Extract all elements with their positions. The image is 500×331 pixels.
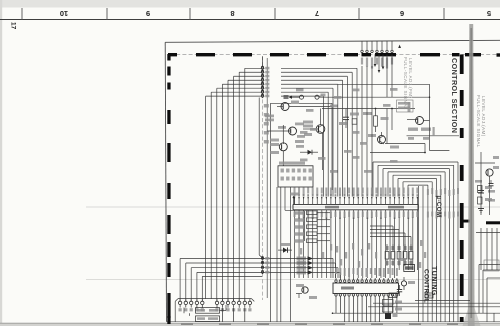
IC U1 pin labels above [294, 188, 419, 197]
component box X4 [425, 293, 433, 298]
transistor Q1 [303, 109, 325, 171]
component box X3 [389, 293, 397, 298]
transistor Q6 [475, 152, 499, 215]
inter-connector wire [259, 98, 261, 258]
resistor R20 [398, 258, 415, 272]
dashed border right edge [460, 55, 464, 323]
label CONTROL SECTION [450, 58, 459, 133]
bottom scan edge strip [0, 323, 500, 326]
bus wires fan left horizontals [206, 68, 261, 96]
svg-text:TUNING: TUNING [430, 266, 437, 296]
resistor R1 [363, 109, 389, 133]
capacitor C21 [489, 180, 494, 186]
svg-text:LEVEL ADJ.(AM): LEVEL ADJ.(AM) [481, 96, 486, 137]
diode D6 [296, 145, 318, 155]
component box X2 [484, 260, 499, 271]
IC1 to IC2 wires [295, 218, 418, 279]
vertical chain line board boundary [262, 56, 264, 300]
ruler number 9 [146, 9, 150, 18]
bus wires fan left verticals [206, 68, 245, 301]
svg-text:17: 17 [10, 22, 17, 30]
stray labels mid bus [300, 240, 426, 268]
svg-text:CONTROL: CONTROL [423, 269, 430, 303]
IC U2 pin labels above [335, 268, 398, 277]
labels near Q1 [295, 121, 313, 144]
ruler ticks [22, 8, 444, 20]
resistor R21 [478, 186, 493, 193]
wires below IC2 [333, 313, 500, 322]
horizontal chain line [170, 53, 500, 55]
IC U1 body [293, 204, 418, 209]
right column verticals [476, 228, 500, 270]
dashed border tee mark [461, 220, 470, 223]
connector row group A [178, 299, 204, 312]
transistor Q2 [368, 132, 426, 153]
transistor Q3 [265, 101, 332, 122]
svg-text:CONTROL SECTION: CONTROL SECTION [450, 58, 459, 133]
circuit block outline [271, 103, 333, 190]
svg-text:µ-COM: µ-COM [435, 196, 442, 218]
IC U1 pin labels below [294, 212, 419, 220]
function box S2 MEMORY [190, 305, 227, 322]
transfer fan horizontals [373, 162, 458, 197]
pin wires down [387, 55, 392, 144]
resistor R2 [350, 113, 359, 125]
fold crease upper [86, 206, 500, 208]
transistor Q3b [267, 123, 305, 138]
reference arrow mark [398, 45, 401, 48]
ground G1 [478, 209, 484, 213]
label FULL-SCALE SIGNAL AM [476, 95, 486, 148]
left scan edge strip [0, 0, 2, 326]
top scan edge strip [0, 0, 500, 8]
diode D1 [278, 243, 292, 253]
label uCOM [435, 196, 442, 218]
capacitor C12 [397, 285, 402, 296]
dashed border bottom edge [167, 316, 458, 325]
connector row bracket [175, 299, 254, 322]
dashed border top edge [168, 53, 460, 56]
misc small labels [296, 88, 398, 173]
dashed border left edge [167, 54, 170, 318]
svg-text:7: 7 [315, 9, 319, 18]
transfer fan verticals [427, 162, 459, 322]
svg-text:FULL-SCALE SIGNAL: FULL-SCALE SIGNAL [403, 57, 408, 110]
fold crease lower [86, 279, 500, 281]
capacitor C11 [383, 307, 403, 313]
connector row group B [215, 299, 251, 322]
power bar right [486, 221, 500, 224]
capacitor C1 [339, 109, 349, 129]
harness wire 5 [202, 275, 262, 277]
right corner wires [479, 265, 500, 323]
bus wires fan right verticals [323, 68, 357, 196]
IC U2 bottom pins [335, 294, 398, 314]
connector pins column J1 [261, 66, 270, 98]
pot VR1 [401, 277, 415, 290]
IC U1 pin stubs [294, 197, 418, 218]
ruler number 8 [230, 9, 234, 18]
boundary rail line [264, 58, 269, 298]
connector block drop wires [271, 187, 307, 322]
wires bottom right [332, 301, 500, 314]
vertical scan smudge [463, 24, 481, 326]
svg-text:6: 6 [400, 9, 404, 18]
crystal X1 [385, 313, 398, 319]
diode arrows D2-D5 [297, 256, 314, 274]
bus wires fan right horizontals [281, 68, 357, 96]
svg-text:5: 5 [487, 9, 491, 18]
transistor Q5 [296, 284, 317, 299]
function box S1 DELAY [184, 308, 220, 314]
harness wires to switches [180, 259, 340, 302]
connector block CB101 [278, 162, 313, 188]
resistor array RA1 [290, 193, 330, 243]
label TUNING CONTROL [423, 266, 437, 303]
trim label box ADJ1 [397, 100, 414, 112]
ruler number 7 [315, 9, 319, 18]
svg-text:FULL-SCALE SIGNAL: FULL-SCALE SIGNAL [476, 95, 481, 148]
signal arrows below pins [374, 55, 385, 74]
wire node rail [322, 108, 415, 110]
transistor Q7 [338, 84, 459, 150]
ruler baseline [0, 19, 500, 21]
IC U2 top pins [335, 278, 398, 282]
dashed border segment beyond fold [465, 53, 500, 57]
svg-text:LEVEL ADJ.(FM): LEVEL ADJ.(FM) [408, 58, 413, 98]
IC U2 body [333, 283, 399, 294]
test point link TP [284, 94, 430, 100]
schematic sheet thin border [165, 40, 500, 321]
svg-text:10: 10 [60, 9, 68, 18]
label FULL-SCALE SIGNAL FM [403, 57, 413, 110]
transistor Q4 [270, 125, 287, 166]
connector pins column J2 [261, 257, 269, 274]
ruler number 10 [60, 9, 68, 18]
ruler number 5 [487, 9, 491, 18]
board edge pins top [361, 41, 393, 69]
resistor group RG1 [385, 244, 413, 266]
svg-text:8: 8 [230, 9, 234, 18]
capacitor C10 [383, 300, 403, 306]
connector stem wire [262, 57, 264, 67]
bus verticals to IC1 [362, 66, 372, 197]
svg-text:9: 9 [146, 9, 150, 18]
ruler number 17 margin [10, 22, 17, 30]
mid corner fan to resistors [370, 226, 411, 252]
resistor R22 [478, 197, 493, 204]
ruler number 6 [400, 9, 404, 18]
extra verticals [419, 186, 424, 322]
capacitor C20 [475, 180, 495, 202]
